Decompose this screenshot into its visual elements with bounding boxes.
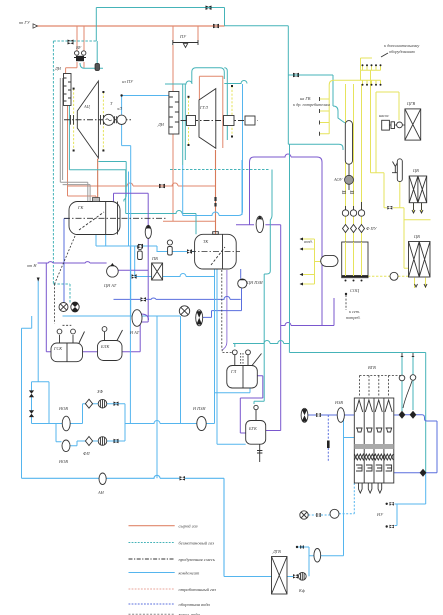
wire: purple left header y263 (38, 262, 149, 271)
svg-text:НЗВ: НЗВ (334, 400, 343, 405)
wire: light blue riser x425.7 lower (395, 473, 426, 526)
valve on teal y75 (293, 73, 299, 77)
buffer vessel V1 (345, 121, 352, 165)
coupling boxes GGL (187, 116, 196, 126)
svg-text:НУ: НУ (376, 512, 384, 517)
fan circle on yellow (390, 272, 398, 280)
wire: yellow manifold top (361, 58, 381, 70)
wire: teal dashed suction line (53, 40, 96, 42)
valve on lb y246 (138, 244, 143, 248)
heat exchanger DN2 (169, 92, 179, 135)
wire: orange drops to regulator VU (66, 26, 84, 74)
orifice row1 (98, 399, 107, 408)
wire: light blue small box circuit (32, 382, 86, 424)
wire: purple pump header y224.7 (236, 225, 281, 431)
svg-text:к др. потребителям: к др. потребителям (293, 102, 330, 107)
steam traps row (342, 206, 348, 216)
wire: royal blue vessel TK to pump (240, 269, 242, 279)
vessel V2 small (397, 159, 402, 182)
svg-text:отработанный газ: отработанный газ (179, 587, 217, 592)
wire: purple y325.5 to x334 riser (281, 298, 334, 326)
svg-text:пп ГУ: пп ГУ (19, 20, 31, 25)
wire: light blue left trunk (22, 316, 32, 478)
wire: purple TL to BGK (240, 376, 262, 433)
orifice row2 (98, 437, 107, 446)
wire: purple GSK feed (46, 263, 51, 352)
orifice KF (298, 572, 306, 580)
wire: yellow V2 drop (399, 182, 401, 208)
wire: light blue DGV outlet (287, 415, 344, 577)
valve on y441 (114, 439, 119, 443)
wire: teal top header (96, 8, 343, 151)
pump P2 on purple header (256, 216, 263, 233)
cooling tower BGV (354, 398, 394, 493)
wire: teal over compressor AC (80, 63, 103, 68)
legend condensate (129, 572, 175, 574)
svg-text:продувочная смесь: продувочная смесь (179, 557, 215, 562)
heat exchanger DN (64, 74, 72, 106)
svg-text:ВГВ: ВГВ (368, 365, 376, 370)
wire: purple drop beside purge (223, 270, 227, 350)
vessel TL (227, 350, 262, 388)
pump AN (99, 473, 106, 485)
wire: light blue dashed makeup (308, 483, 354, 515)
control valve filled left (71, 302, 79, 313)
wire: light blue stub to tower left (344, 437, 355, 439)
svg-text:АН: АН (97, 490, 105, 495)
valve into TK (187, 249, 192, 253)
filter diamonds row (343, 225, 349, 233)
wire: royal blue from GK left (64, 219, 69, 303)
legend purge (129, 558, 175, 560)
svg-text:ПУ: ПУ (179, 34, 187, 39)
svg-text:ЦВ: ЦВ (413, 234, 420, 239)
svg-text:сырой газ: сырой газ (179, 524, 198, 529)
control valve filled mid (196, 310, 203, 326)
wire: light blue main cross header y423.5 (125, 269, 250, 444)
svg-text:к сет.: к сет. (349, 309, 360, 314)
valve on orange y186 (159, 184, 165, 188)
wire: yellow three column lines (346, 84, 362, 242)
filter diamond row2 (85, 437, 92, 446)
pump N AT (132, 310, 142, 327)
valve X mid (179, 306, 189, 316)
svg-text:БГК: БГК (248, 426, 258, 431)
svg-text:НОВ: НОВ (58, 406, 68, 411)
lube dot markers (73, 85, 233, 152)
valves under AOU (343, 191, 346, 195)
filter AOU (345, 164, 354, 190)
svg-text:на ГВ: на ГВ (300, 96, 311, 101)
drain below BGK (257, 444, 262, 462)
level gauge 1 (137, 244, 142, 259)
svg-text:к дополнительному: к дополнительному (384, 43, 419, 48)
KIP capsule (321, 255, 338, 266)
svg-text:ФП: ФП (83, 451, 90, 456)
svg-text:ГСК: ГСК (53, 346, 63, 351)
makeup X valve (300, 511, 308, 519)
svg-text:безметановый газ: безметановый газ (179, 540, 215, 545)
level gauge 2 (167, 240, 172, 255)
pump CN PZI (238, 279, 247, 288)
wire: purple pump NAT link (141, 314, 149, 320)
wire: grey duct from DN to GK (60, 78, 90, 202)
wire: light blue through PV heater y276.5 (135, 274, 215, 277)
compressor AC (77, 81, 98, 158)
coupling ticks AC (71, 115, 117, 125)
control valve before NZV (301, 408, 308, 422)
svg-text:возд.: возд. (304, 239, 313, 244)
svg-text:насос: насос (379, 113, 389, 118)
wire: yellow dashed lube at AC (74, 86, 232, 151)
wire: black dashed TL stems (241, 353, 243, 366)
svg-text:ДН: ДН (157, 122, 165, 127)
wire: teal drops to tower fans (402, 356, 413, 411)
wire: teal main y353 to tower (233, 341, 426, 473)
wire: yellow to CGV cooler (389, 124, 405, 126)
wire: light blue iz PU to motor and DN2 (122, 96, 169, 317)
legend raw gas (129, 525, 175, 527)
valve X left pair (59, 303, 68, 312)
valve on orange header (213, 24, 219, 28)
nozzle tick on TK inlet (214, 197, 216, 201)
pump unit nasos (382, 120, 403, 130)
wire: orange loop over compressor GGL (199, 76, 222, 148)
svg-text:ЦН АТ: ЦН АТ (103, 283, 117, 288)
wire: purple from GK drop with pump P1 (114, 193, 149, 351)
svg-text:Т: Т (110, 101, 113, 106)
wire: cyan down from GGL right side (183, 84, 243, 216)
svg-text:ГГЛ: ГГЛ (199, 105, 209, 110)
valve on blue y415 (316, 413, 321, 417)
wire: yellow box outline top (376, 92, 399, 173)
svg-text:ДГВ: ДГВ (272, 549, 281, 554)
valve on b2 y299 (141, 297, 147, 301)
svg-text:конденсат: конденсат (179, 570, 200, 575)
wire: light blue pump NOV2 row2 (56, 424, 125, 446)
valve on teal top header (206, 6, 212, 10)
wire: orange from DN bottom down to vessel GK (68, 106, 97, 202)
arrow ot N (37, 278, 40, 282)
black dots yellow manifold (362, 64, 382, 85)
wire: light blue from-N riser (37, 279, 39, 382)
pump N PZI (197, 417, 206, 431)
valve on y403 (114, 402, 119, 406)
wire: light blue verticals mid (130, 246, 180, 478)
svg-text:ХФ: ХФ (96, 389, 104, 394)
svg-text:СОЦ: СОЦ (350, 288, 360, 293)
fan circles tower (399, 375, 405, 381)
valve after DGV (293, 574, 298, 578)
wire: black stub near DGV (297, 546, 310, 548)
wire: royal blue from control valve to pump CN PZI (203, 288, 242, 317)
wire: light blue filter row1 (93, 404, 126, 441)
wire: orange drop to PU valve and down through DN2 (163, 26, 216, 221)
wire: teal bracket over compressor GGL (165, 68, 247, 84)
svg-text:из ПУ: из ПУ (122, 79, 134, 84)
svg-text:ГЛ: ГЛ (230, 369, 237, 374)
turbine T circle (103, 114, 114, 125)
svg-text:от Н: от Н (27, 263, 37, 268)
inlet pot on AC (95, 64, 100, 71)
valve on yellow y207.7 (387, 206, 392, 210)
wire: teal x269.5 drop (254, 170, 272, 405)
wire: black S-bypass (403, 381, 412, 408)
wire: light blue x242 drop (241, 160, 243, 215)
wire: yellow consumers stubs (320, 80, 361, 134)
wire: yellow big loop left (371, 70, 409, 268)
svg-text:ЦГВ: ЦГВ (406, 101, 416, 106)
shaft GGL (181, 120, 259, 122)
svg-text:Кф: Кф (298, 588, 305, 593)
box SOC (342, 242, 368, 282)
wire: teal x289.5 long vertical (289, 144, 291, 343)
valve on lb y276.5 (132, 274, 137, 278)
pump NOV2 (62, 440, 70, 452)
wire: yellow SOC outlet dashed (368, 275, 409, 277)
wire: teal pair down from GGL left (183, 84, 186, 165)
svg-text:БЛК: БЛК (100, 344, 110, 349)
wire: purple PI loop over GGL (250, 154, 323, 326)
valve tick on royal dashed (327, 441, 330, 449)
makeup pump circle (330, 509, 339, 518)
vessel GSK (51, 329, 85, 362)
vessel TK (190, 232, 240, 269)
svg-text:оборудованию: оборудованию (389, 49, 415, 54)
wire: teal branch to buffer vessel (288, 75, 345, 123)
svg-text:ЦН ПЗИ: ЦН ПЗИ (246, 280, 264, 285)
wire: yellow manifold 2 (361, 70, 381, 84)
tower riser ticks (401, 353, 414, 357)
vessel BLK (98, 327, 123, 361)
legend recycled water (129, 603, 175, 605)
vessel BGK (246, 405, 266, 444)
svg-text:ЦВ: ЦВ (412, 168, 419, 173)
Y drain symbol (392, 162, 399, 173)
wire: yellow KIP stubs (303, 239, 321, 284)
valve on y478 (180, 476, 186, 480)
wire: teal to vessel TK area (126, 211, 196, 235)
svg-text:Н ПЗИ: Н ПЗИ (192, 406, 206, 411)
wire: teal dashed upper y169.5 (170, 169, 270, 171)
svg-text:ДН: ДН (54, 66, 62, 71)
junction diamonds on blue (399, 411, 406, 419)
legend partial last (129, 613, 175, 615)
wire: orange long horizontal y186 (68, 183, 216, 186)
svg-text:АЦ: АЦ (83, 104, 91, 109)
wire: black dashed purge from GK (55, 236, 75, 325)
cooler CV1 (409, 176, 427, 213)
wire: royal blue dashed drop x328.3 (327, 415, 329, 462)
wire: light blue y246 valve line (96, 235, 195, 253)
wire: light blue return main y478.3 (22, 475, 272, 576)
svg-text:ПВ: ПВ (151, 256, 158, 261)
dashed vent below SOC (345, 295, 347, 310)
wire: raw gas orange header (36, 25, 225, 27)
valve on teal suction (closed) (68, 40, 74, 45)
legend teal dashed (129, 542, 175, 544)
pump P1 on purple (145, 225, 151, 239)
wire: royal blue tower circuit (308, 415, 437, 473)
motor circle (117, 115, 126, 124)
heater PV (square with X) (152, 263, 163, 280)
shaft AC (64, 119, 131, 121)
wire: compressor AC discharge orange (97, 159, 99, 202)
node iz PU dot (120, 94, 122, 96)
svg-text:НОВ: НОВ (58, 459, 68, 464)
wire: purple GSK-BLK link (83, 351, 141, 353)
wire: light blue x134.7 drop (134, 246, 136, 277)
wire: teal drop to inlet pot (96, 41, 98, 64)
wire: light blue suction header y316 (63, 315, 181, 317)
wire: yellow under CV1 (404, 203, 431, 220)
svg-text:оборотная вода: оборотная вода (179, 602, 211, 607)
vessel GK (64, 198, 166, 235)
PU pressure valve (173, 40, 198, 48)
consumer stub ticks (319, 97, 321, 136)
KIP stub arrows (300, 238, 304, 286)
svg-text:ВУ: ВУ (76, 45, 82, 50)
wire: teal dashed left drop (53, 41, 70, 303)
valves small box left (29, 390, 34, 397)
compressor GGL (199, 89, 216, 149)
wire: yellow CV2 stubs (415, 278, 426, 288)
cooler CGV (405, 109, 421, 140)
wire: teal compressor AC bottom loop (69, 85, 126, 214)
wire: teal drop x227 (224, 68, 227, 140)
wire: light blue y299 lower header (114, 296, 241, 299)
box DGV (272, 557, 288, 595)
arrow pp GU (33, 24, 38, 28)
svg-text:АОУ: АОУ (333, 177, 343, 182)
wire: compressor GGL discharge dark orange to vessel TK (215, 150, 217, 234)
makeup bowtie (316, 513, 321, 517)
pump NZV (337, 408, 344, 423)
wire: light blue long vertical x128.5 (128, 172, 130, 247)
regulator VU (74, 51, 86, 61)
cooler CV2 (409, 242, 431, 288)
svg-text:потреб.: потреб. (346, 315, 361, 320)
legend waste gas (129, 588, 175, 590)
pump NOV1 (62, 416, 70, 431)
filter diamond row1 (85, 399, 92, 408)
pump P bottom (314, 549, 321, 563)
pump CN AT (107, 263, 119, 277)
tower spray dashed manifold (360, 376, 401, 397)
wire: black dashed purge to TL (222, 270, 233, 353)
tower drain stubs (386, 502, 394, 506)
stub valve near DGV (296, 545, 304, 549)
svg-text:Ф ПУ: Ф ПУ (366, 226, 378, 231)
svg-text:Н АТ: Н АТ (129, 330, 140, 335)
